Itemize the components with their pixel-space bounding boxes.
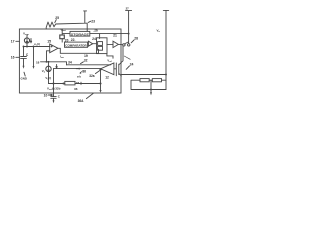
svg-text:a·b: a·b bbox=[77, 74, 81, 78]
wire q out bbox=[107, 54, 113, 59]
regulator block 20 bbox=[60, 35, 65, 39]
svg-text:36A: 36A bbox=[78, 99, 85, 103]
svg-text:vC(t): vC(t) bbox=[34, 42, 40, 47]
ground stub bbox=[150, 80, 152, 92]
leader 17 bbox=[16, 40, 20, 42]
svg-text:18: 18 bbox=[36, 60, 40, 64]
svg-text:Vref: Vref bbox=[107, 58, 112, 62]
svg-text:22.: 22. bbox=[71, 38, 76, 42]
output capacitor bbox=[51, 97, 56, 101]
label 10 bbox=[44, 94, 48, 98]
node vC(t) bbox=[34, 42, 40, 47]
wire bbox=[93, 43, 97, 45]
wire rail a bbox=[41, 62, 67, 65]
svg-text:16: 16 bbox=[11, 56, 15, 60]
current arrow bbox=[30, 39, 31, 43]
feedback wire vs bbox=[53, 69, 55, 97]
IC outer box 10 bbox=[19, 29, 121, 93]
svg-text:Vsw(t): Vsw(t) bbox=[47, 87, 55, 92]
wire bbox=[26, 43, 28, 46]
svg-text:COMPARATOR: COMPARATOR bbox=[65, 43, 87, 47]
svg-text:GND: GND bbox=[21, 77, 27, 81]
inductor L bbox=[140, 79, 149, 82]
svg-text:24: 24 bbox=[92, 37, 96, 41]
node Vref bbox=[107, 58, 112, 62]
wire bus bbox=[90, 33, 129, 35]
svg-text:Vb: Vb bbox=[42, 69, 46, 74]
label 32a bbox=[89, 74, 95, 78]
wire bbox=[107, 43, 113, 45]
label 28 bbox=[134, 37, 138, 41]
flip-flop block bbox=[97, 38, 108, 54]
wire bbox=[75, 69, 101, 91]
leader 16 bbox=[16, 56, 20, 58]
current source 17 bbox=[24, 38, 29, 43]
pin contact bbox=[123, 44, 125, 46]
node Vsup bbox=[23, 31, 29, 36]
svg-text:36: 36 bbox=[74, 87, 78, 91]
leader mark bbox=[124, 56, 130, 59]
svg-text:Vs(t): Vs(t) bbox=[45, 76, 51, 81]
net Isw bbox=[60, 55, 64, 60]
svg-text:23: 23 bbox=[91, 19, 95, 23]
node ab bbox=[76, 68, 79, 70]
capacitor C bbox=[21, 47, 27, 67]
label 23 bbox=[91, 19, 95, 23]
load R bbox=[152, 79, 161, 82]
wire output pin bbox=[121, 74, 166, 76]
svg-text:Va: Va bbox=[157, 29, 161, 34]
resistor 25 bbox=[46, 11, 87, 32]
wire va rail bbox=[163, 10, 168, 89]
driver 21 bbox=[113, 33, 117, 37]
wire rail b bbox=[67, 64, 111, 66]
svg-text:36: 36 bbox=[82, 70, 86, 74]
svg-text:28: 28 bbox=[134, 37, 138, 41]
wire bbox=[118, 43, 122, 45]
svg-text:19: 19 bbox=[84, 54, 88, 58]
svg-text:Vsup: Vsup bbox=[23, 31, 29, 36]
label 19 bbox=[84, 54, 88, 58]
switch blade bbox=[124, 42, 128, 44]
label 34 bbox=[68, 60, 72, 64]
wire bbox=[99, 34, 101, 39]
wire bottom rail bbox=[49, 83, 65, 85]
wire vbat drop bbox=[128, 11, 130, 44]
wire bbox=[62, 29, 70, 35]
svg-text:32a: 32a bbox=[89, 74, 95, 78]
comparator 12 bbox=[101, 63, 114, 75]
block 22 comparator bbox=[65, 42, 88, 47]
terminal 27 bbox=[126, 7, 130, 11]
label 36 bbox=[82, 70, 86, 74]
block 26 storage bbox=[70, 31, 90, 36]
inverting input wire bbox=[47, 51, 50, 62]
svg-text:10: 10 bbox=[44, 94, 48, 98]
resistor 33 bbox=[65, 81, 75, 85]
op-amp 15 bbox=[47, 39, 51, 43]
ground GND bbox=[21, 77, 27, 81]
gate 24 bbox=[88, 41, 92, 46]
label 32b bbox=[55, 86, 60, 90]
label 17 bbox=[11, 40, 15, 44]
pin contact bbox=[128, 44, 130, 46]
svg-text:34: 34 bbox=[68, 60, 72, 64]
svg-text:32b: 32b bbox=[55, 86, 60, 90]
current arrow at node bbox=[80, 82, 82, 83]
svg-text:21: 21 bbox=[113, 33, 117, 37]
transistor M1 bbox=[114, 63, 119, 76]
svg-text:32: 32 bbox=[84, 59, 88, 63]
label 32 bbox=[84, 59, 88, 63]
svg-text:27: 27 bbox=[126, 7, 130, 11]
svg-text:STORAGE: STORAGE bbox=[71, 32, 89, 36]
label 36b bbox=[74, 87, 78, 91]
latch b bbox=[98, 46, 103, 50]
wire bbox=[26, 35, 28, 38]
svg-text:.26: .26 bbox=[93, 28, 98, 32]
svg-text:C: C bbox=[26, 53, 29, 57]
op-amp output wire bbox=[58, 48, 99, 53]
label 26 bbox=[93, 28, 98, 32]
node Va bbox=[157, 29, 161, 34]
discharge switch wire 18 bbox=[33, 47, 35, 67]
svg-text:17: 17 bbox=[11, 40, 15, 44]
load network bbox=[131, 80, 166, 89]
label 16 bbox=[11, 56, 15, 60]
svg-text:15: 15 bbox=[47, 39, 51, 43]
label 24 pin bbox=[130, 63, 134, 67]
latch a bbox=[98, 42, 103, 46]
svg-text:12: 12 bbox=[105, 76, 109, 80]
label 22 bbox=[71, 38, 76, 42]
svg-text:24: 24 bbox=[130, 63, 134, 67]
current arrow bbox=[56, 64, 57, 68]
svg-text:C: C bbox=[58, 95, 61, 99]
wire ramp node bbox=[24, 46, 50, 48]
label Vsw(t) bbox=[47, 87, 55, 92]
svg-text:Isw: Isw bbox=[60, 55, 64, 60]
node Vbat bbox=[60, 28, 66, 33]
label 36A bbox=[78, 99, 85, 103]
current source Ib bbox=[48, 62, 50, 66]
wire rail c bbox=[54, 68, 101, 70]
svg-text:25: 25 bbox=[55, 16, 59, 20]
svg-text:Vbat: Vbat bbox=[60, 28, 66, 33]
